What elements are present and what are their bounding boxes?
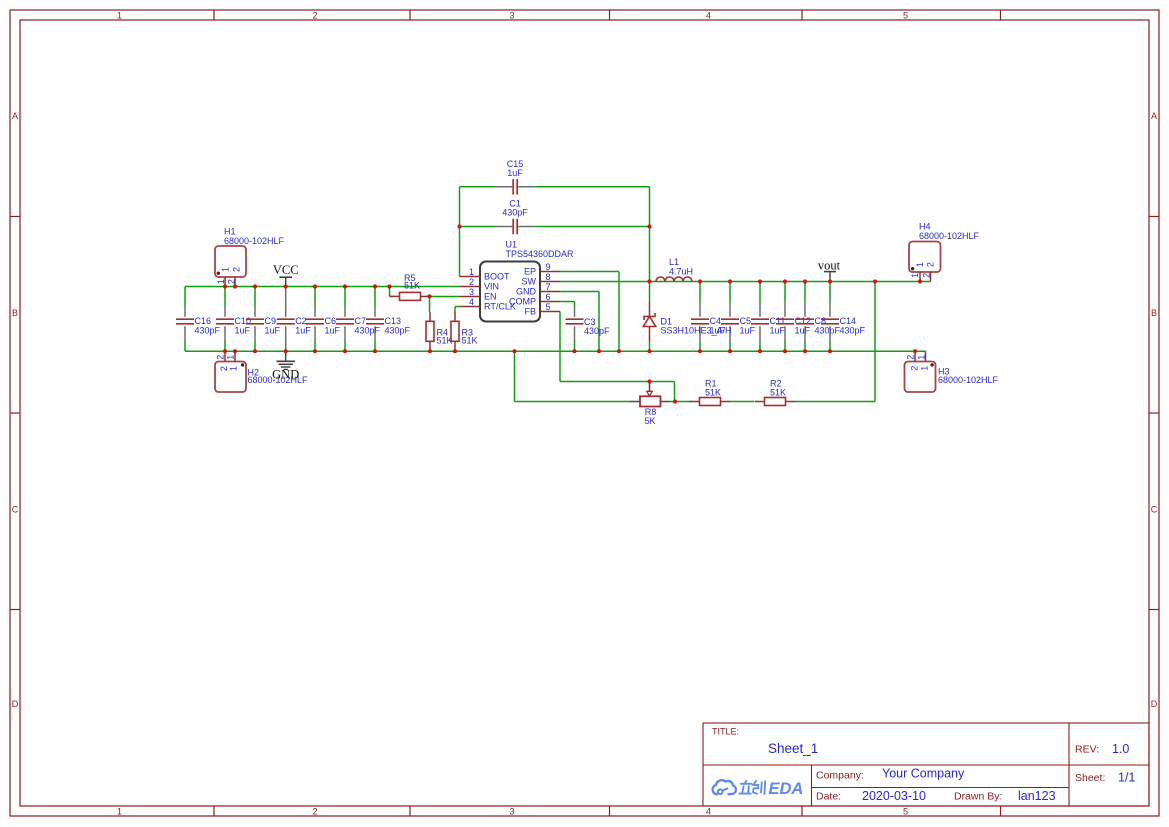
capacitor C15 1uF bbox=[495, 159, 534, 195]
capacitor C3 430pF bbox=[566, 308, 611, 341]
svg-text:1: 1 bbox=[228, 366, 238, 371]
wire R8 right to R1 bbox=[670, 401, 691, 403]
svg-text:U1: U1 bbox=[506, 240, 518, 250]
wire R4 top bbox=[429, 296, 431, 312]
svg-text:2020-03-10: 2020-03-10 bbox=[862, 789, 926, 803]
svg-text:1: 1 bbox=[225, 355, 235, 360]
net vout bbox=[818, 259, 841, 282]
svg-text:A: A bbox=[1151, 111, 1157, 121]
wire R5 branch bbox=[390, 287, 430, 297]
svg-text:5: 5 bbox=[903, 11, 908, 21]
svg-text:5: 5 bbox=[545, 302, 550, 312]
EasyEDA (立创EDA) logo bbox=[713, 780, 804, 798]
svg-text:2: 2 bbox=[926, 262, 936, 267]
capacitor C14 430pF bbox=[821, 282, 866, 352]
svg-text:430pF: 430pF bbox=[584, 326, 610, 336]
svg-text:1uF: 1uF bbox=[325, 325, 341, 335]
wire R1 to R2 bbox=[730, 401, 754, 403]
svg-text:51K: 51K bbox=[770, 387, 786, 397]
capacitor C9 1uF bbox=[246, 287, 281, 352]
svg-text:Company:: Company: bbox=[816, 770, 864, 782]
svg-text:8: 8 bbox=[545, 272, 550, 282]
svg-text:Sheet:: Sheet: bbox=[1075, 772, 1105, 784]
svg-text:4: 4 bbox=[706, 807, 711, 817]
wire COMP to C3 bbox=[560, 302, 575, 352]
svg-text:1uF: 1uF bbox=[740, 325, 756, 335]
svg-text:FB: FB bbox=[524, 307, 536, 317]
connector H3 68000-102HLF bbox=[905, 351, 999, 392]
svg-text:D: D bbox=[1151, 699, 1158, 709]
svg-text:1: 1 bbox=[919, 366, 929, 371]
svg-text:1: 1 bbox=[917, 355, 927, 360]
svg-text:3: 3 bbox=[469, 287, 474, 297]
connector H1 68000-102HLF bbox=[215, 227, 285, 287]
wire RT/CLK to R3 bbox=[455, 307, 460, 313]
capacitor C2 1uF bbox=[277, 287, 312, 352]
svg-text:51K: 51K bbox=[705, 387, 721, 397]
svg-text:1uF: 1uF bbox=[295, 325, 311, 335]
svg-text:2: 2 bbox=[312, 11, 317, 21]
wire C15 row bbox=[460, 186, 650, 188]
svg-text:1/1: 1/1 bbox=[1118, 771, 1135, 785]
wire BOOT riser bbox=[460, 187, 461, 277]
wire vout top rail (right) bbox=[650, 281, 931, 283]
svg-text:SS3H10HE3_A/H: SS3H10HE3_A/H bbox=[661, 326, 732, 336]
svg-text:EP: EP bbox=[524, 267, 536, 277]
svg-text:3: 3 bbox=[509, 807, 514, 817]
svg-text:Date:: Date: bbox=[816, 791, 841, 803]
svg-text:COMP: COMP bbox=[509, 297, 536, 307]
capacitor C6 1uF bbox=[306, 287, 341, 352]
capacitor C13 430pF bbox=[366, 287, 411, 352]
svg-text:BOOT: BOOT bbox=[484, 272, 510, 282]
svg-text:2: 2 bbox=[906, 355, 916, 360]
diode D1 SS3H10HE3_A/H bbox=[643, 282, 731, 352]
svg-text:1uF: 1uF bbox=[265, 325, 281, 335]
wire bottom to R8 left bbox=[515, 351, 631, 401]
svg-text:5: 5 bbox=[903, 807, 908, 817]
pin 9 EP bbox=[524, 262, 560, 277]
svg-text:430pF: 430pF bbox=[840, 325, 866, 335]
junction dots bbox=[223, 224, 922, 403]
svg-text:5K: 5K bbox=[644, 416, 655, 426]
svg-text:D: D bbox=[12, 699, 19, 709]
resistor R3 51K bbox=[451, 312, 478, 351]
svg-text:SW: SW bbox=[522, 277, 537, 287]
svg-text:1.0: 1.0 bbox=[1112, 742, 1129, 756]
resistor R1 51K bbox=[690, 379, 731, 406]
svg-text:vout: vout bbox=[818, 259, 841, 273]
wire FB net bbox=[560, 312, 675, 402]
svg-text:4.7uH: 4.7uH bbox=[669, 266, 693, 276]
svg-text:51K: 51K bbox=[462, 336, 478, 346]
svg-text:1uF: 1uF bbox=[770, 325, 786, 335]
svg-text:1: 1 bbox=[915, 262, 925, 267]
capacitor C16 430pF bbox=[176, 287, 221, 352]
svg-text:430pF: 430pF bbox=[502, 208, 528, 218]
svg-text:Drawn By:: Drawn By: bbox=[954, 791, 1002, 803]
svg-text:3: 3 bbox=[509, 11, 514, 21]
svg-text:1: 1 bbox=[117, 11, 122, 21]
svg-text:C: C bbox=[12, 505, 19, 515]
svg-text:1: 1 bbox=[221, 267, 231, 272]
svg-text:430pF: 430pF bbox=[815, 325, 841, 335]
svg-text:1: 1 bbox=[469, 267, 474, 277]
resistor R4 51K bbox=[426, 312, 453, 351]
svg-text:Your Company: Your Company bbox=[882, 767, 965, 781]
svg-text:430pF: 430pF bbox=[355, 325, 381, 335]
op-amp U1 TPS54360DDAR body bbox=[480, 240, 574, 322]
svg-text:2: 2 bbox=[312, 807, 317, 817]
pin 3 EN bbox=[460, 287, 497, 302]
svg-text:lan123: lan123 bbox=[1018, 789, 1056, 803]
net VCC bbox=[273, 263, 299, 287]
title block bbox=[703, 723, 1149, 806]
capacitor C4 1uF bbox=[691, 282, 726, 352]
svg-text:B: B bbox=[12, 308, 18, 318]
svg-text:1: 1 bbox=[910, 273, 920, 278]
ground GND net bbox=[272, 351, 299, 381]
capacitor C1 430pF bbox=[495, 199, 534, 235]
svg-text:1uF: 1uF bbox=[507, 168, 523, 178]
svg-text:REV:: REV: bbox=[1075, 744, 1099, 756]
wire EP to ground bbox=[560, 272, 619, 352]
capacitor C10 1uF bbox=[216, 287, 251, 352]
capacitor C5 1uF bbox=[721, 282, 756, 352]
svg-text:1uF: 1uF bbox=[235, 325, 251, 335]
svg-text:TPS54360DDAR: TPS54360DDAR bbox=[506, 249, 575, 259]
svg-text:51K: 51K bbox=[437, 336, 453, 346]
svg-text:B: B bbox=[1151, 308, 1157, 318]
svg-text:2: 2 bbox=[921, 273, 931, 278]
pin 6 COMP bbox=[509, 292, 560, 307]
svg-text:430pF: 430pF bbox=[385, 325, 411, 335]
pin 5 FB bbox=[524, 302, 560, 317]
pin 8 SW bbox=[522, 272, 561, 287]
wire GND pin to rail bbox=[560, 292, 599, 352]
svg-text:Sheet_1: Sheet_1 bbox=[768, 741, 818, 756]
wire R2 to vout rail bbox=[796, 282, 876, 402]
svg-text:1: 1 bbox=[216, 279, 226, 284]
wire GND bottom rail bbox=[185, 350, 926, 352]
svg-text:68000-102HLF: 68000-102HLF bbox=[919, 231, 980, 241]
svg-text:GND: GND bbox=[516, 287, 537, 297]
svg-text:EN: EN bbox=[484, 292, 497, 302]
capacitor C8 430pF bbox=[796, 282, 841, 352]
wire VCC top rail (left) bbox=[185, 286, 460, 288]
inductor L1 4.7uH bbox=[656, 257, 693, 282]
svg-text:2: 2 bbox=[469, 277, 474, 287]
pin 1 BOOT bbox=[460, 267, 510, 282]
svg-text:68000-102HLF: 68000-102HLF bbox=[224, 236, 285, 246]
pin 4 RT/CLK bbox=[460, 297, 516, 312]
svg-text:GND: GND bbox=[272, 368, 299, 382]
svg-text:4: 4 bbox=[469, 297, 474, 307]
svg-text:2: 2 bbox=[226, 279, 236, 284]
svg-text:2: 2 bbox=[231, 267, 241, 272]
svg-text:2: 2 bbox=[216, 355, 226, 360]
wire EN node bbox=[430, 296, 461, 298]
connector H4 68000-102HLF bbox=[909, 222, 980, 282]
wire SW riser bbox=[649, 187, 651, 282]
svg-text:68000-102HLF: 68000-102HLF bbox=[938, 375, 999, 385]
svg-text:2: 2 bbox=[909, 366, 919, 371]
svg-text:430pF: 430pF bbox=[195, 325, 221, 335]
svg-text:TITLE:: TITLE: bbox=[712, 727, 739, 737]
resistor R2 51K bbox=[755, 379, 796, 406]
capacitor C7 430pF bbox=[336, 287, 381, 352]
svg-text:VIN: VIN bbox=[484, 282, 499, 292]
svg-text:6: 6 bbox=[545, 292, 550, 302]
svg-text:7: 7 bbox=[545, 282, 550, 292]
svg-text:VCC: VCC bbox=[273, 263, 299, 277]
svg-text:C: C bbox=[1151, 505, 1158, 515]
resistor R5 51K bbox=[390, 273, 431, 301]
svg-text:A: A bbox=[12, 111, 18, 121]
wire SW to node bbox=[560, 281, 650, 283]
capacitor C12 1uF bbox=[776, 282, 811, 352]
svg-text:51K: 51K bbox=[404, 281, 420, 291]
svg-text:1uF: 1uF bbox=[795, 325, 811, 335]
pin 2 VIN bbox=[460, 277, 499, 292]
capacitor C11 1uF bbox=[751, 282, 786, 352]
wire C1 row bbox=[460, 226, 650, 228]
connector H2 68000-102HLF bbox=[215, 351, 308, 392]
svg-text:1: 1 bbox=[117, 807, 122, 817]
svg-text:9: 9 bbox=[545, 262, 550, 272]
potentiometer R8 5K bbox=[630, 382, 670, 426]
pin 7 GND bbox=[516, 282, 560, 297]
svg-text:EDA: EDA bbox=[769, 780, 804, 798]
svg-text:4: 4 bbox=[706, 11, 711, 21]
